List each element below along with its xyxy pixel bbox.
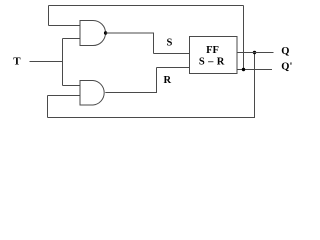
wire to top gate input 1	[49, 25, 81, 27]
svg-text:S: S	[167, 38, 173, 49]
wire R vertical	[156, 68, 158, 93]
wire top feedback horizontal	[49, 5, 244, 7]
svg-text:FF: FF	[206, 45, 219, 56]
wire S vertical	[153, 33, 155, 54]
wire Q' output	[237, 69, 272, 71]
wire bottom feedback horizontal	[48, 117, 256, 119]
wire G1 output horizontal	[106, 32, 155, 34]
wire to bottom gate input 2	[48, 95, 81, 97]
wire bottom feedback left vertical	[47, 96, 49, 118]
svg-text:T: T	[13, 56, 21, 68]
junction dot at G1 output	[104, 31, 107, 34]
wire top feedback left vertical	[48, 6, 50, 26]
AND gate G1 (top)	[80, 21, 105, 46]
wire bottom feedback right vertical	[254, 53, 256, 118]
svg-text:R: R	[164, 75, 172, 86]
wire R into box	[157, 67, 190, 69]
svg-text:S–R: S–R	[199, 57, 228, 68]
wire T input	[30, 61, 64, 63]
AND gate G2 (bottom)	[80, 81, 104, 106]
flip-flop U1 box	[190, 37, 238, 74]
wire S into box	[154, 53, 190, 55]
wire to top gate input 2	[63, 38, 81, 40]
junction dot on Q' wire	[242, 68, 245, 71]
wire Q output	[237, 52, 274, 54]
wire to bottom gate input 1	[63, 85, 81, 87]
svg-text:Q: Q	[281, 46, 289, 57]
svg-text:Q': Q'	[281, 62, 292, 73]
wire G2 output horizontal	[105, 92, 157, 94]
wire Q' feedback vertical to top	[243, 6, 245, 70]
wire T trunk vertical	[62, 39, 64, 86]
junction dot on Q wire	[253, 51, 256, 54]
